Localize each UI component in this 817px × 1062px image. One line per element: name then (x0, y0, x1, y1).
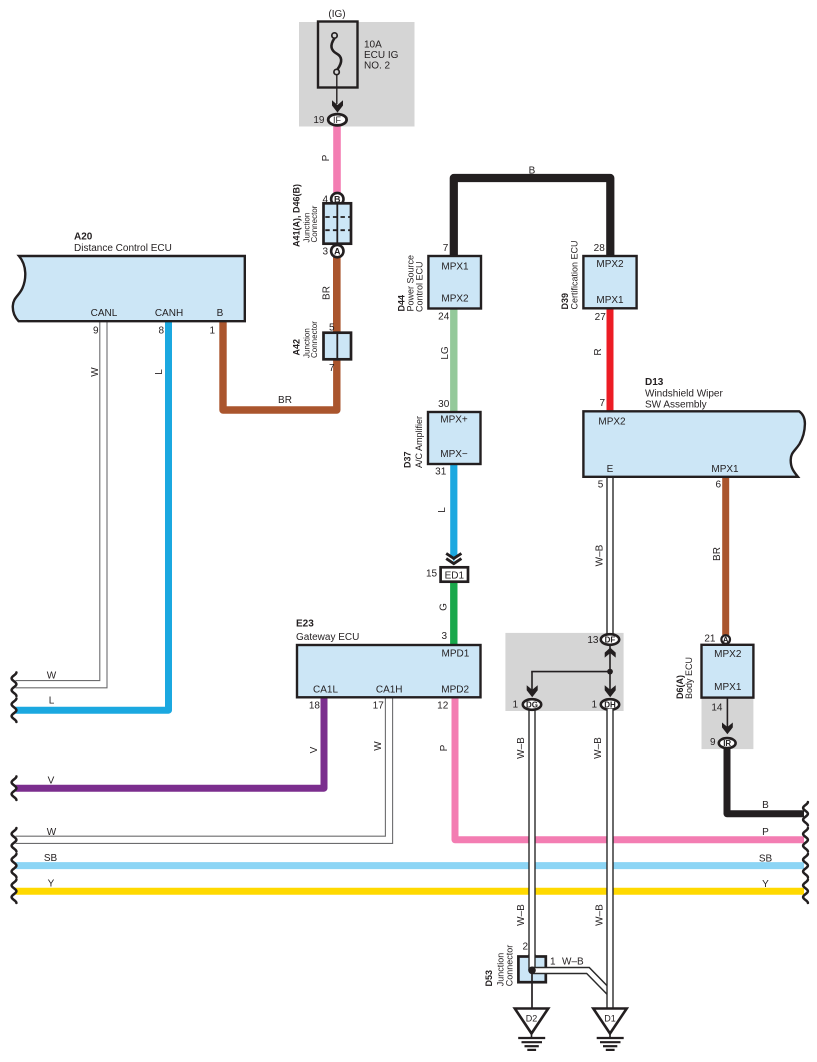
svg-text:19: 19 (313, 115, 325, 126)
svg-text:Connector: Connector (505, 945, 515, 987)
svg-text:E: E (607, 464, 614, 475)
svg-text:MPX1: MPX1 (714, 682, 742, 693)
svg-text:W: W (90, 367, 101, 377)
svg-text:DF: DF (605, 636, 616, 645)
svg-text:L: L (49, 696, 55, 707)
svg-text:3: 3 (441, 631, 447, 642)
label D37 A/C Amplifier (403, 416, 425, 468)
label D39 Certification ECU (560, 240, 580, 309)
svg-text:8: 8 (158, 326, 164, 337)
svg-text:MPX−: MPX− (440, 449, 468, 460)
svg-text:L: L (437, 507, 448, 513)
svg-text:31: 31 (435, 466, 447, 477)
wire SB bus (16, 862, 805, 869)
svg-text:A: A (723, 635, 729, 644)
continuation symbol Y left (12, 879, 17, 903)
svg-text:CA1L: CA1L (313, 684, 338, 695)
svg-text:B: B (529, 165, 536, 176)
svg-text:1: 1 (550, 957, 556, 968)
svg-text:A20: A20 (74, 232, 93, 243)
svg-text:P: P (762, 827, 769, 838)
svg-text:SB: SB (44, 853, 58, 864)
wire L from D37 to ED1 arrow (450, 463, 457, 562)
svg-text:DG: DG (526, 701, 538, 710)
connector ED1 (441, 567, 468, 581)
svg-text:MPX2: MPX2 (596, 259, 624, 270)
arrow into IF (332, 100, 343, 112)
svg-text:W–B: W–B (562, 957, 584, 968)
svg-text:W–B: W–B (595, 904, 606, 926)
svg-text:Connector: Connector (310, 321, 319, 358)
arrow into DH (605, 685, 616, 697)
svg-text:BR: BR (322, 286, 333, 300)
fuse value label (364, 40, 399, 72)
wire W-B from DG to D53 (528, 709, 535, 957)
ground D2 (515, 1009, 548, 1050)
wire LG from D44 to D37 (450, 308, 457, 413)
svg-text:IR: IR (723, 739, 731, 748)
svg-text:Windshield Wiper: Windshield Wiper (645, 389, 723, 400)
continuation symbol L left (12, 698, 17, 722)
svg-text:CANL: CANL (91, 308, 118, 319)
svg-text:A/C Amplifier: A/C Amplifier (414, 416, 424, 468)
wire W from E23 CA1H to left edge (16, 697, 390, 840)
svg-text:1: 1 (591, 700, 597, 711)
svg-text:D37: D37 (403, 451, 413, 468)
junction dot (607, 669, 613, 675)
wire P from E23 MPD2 to right edge (455, 697, 804, 840)
svg-text:Y: Y (762, 879, 769, 890)
svg-text:14: 14 (711, 703, 723, 714)
svg-text:MPX1: MPX1 (441, 262, 469, 273)
svg-text:28: 28 (594, 243, 606, 254)
continuation symbol Y right (803, 879, 808, 903)
svg-text:W–B: W–B (516, 904, 527, 926)
connector DG (523, 699, 541, 710)
svg-text:24: 24 (438, 311, 450, 322)
svg-text:DH: DH (604, 701, 616, 710)
junction wiring DF to DG/DH (531, 646, 610, 690)
svg-text:D13: D13 (645, 377, 664, 388)
ECU D13 Windshield Wiper SW Assembly (583, 411, 805, 477)
svg-text:6: 6 (715, 480, 721, 491)
wire G from ED1 to E23 (450, 582, 457, 646)
chevron arrows into ED1 (446, 553, 461, 563)
svg-text:D53: D53 (484, 970, 494, 987)
wire B from D44 to D39 (454, 178, 611, 257)
svg-text:10A: 10A (364, 40, 382, 51)
svg-text:W: W (47, 827, 57, 838)
svg-text:BR: BR (712, 547, 723, 561)
svg-text:MPX2: MPX2 (598, 417, 626, 428)
wire B from IR to right edge (727, 748, 804, 814)
ECU D37 A/C Amplifier (428, 412, 481, 464)
connector DH (601, 699, 619, 710)
svg-text:P: P (439, 744, 450, 751)
svg-text:R: R (593, 348, 604, 355)
svg-text:B: B (762, 800, 769, 811)
wire from D6(A) pin 14 to IR (726, 698, 728, 727)
ECU E23 Gateway ECU (297, 645, 481, 697)
svg-text:W: W (373, 741, 384, 751)
wire V from E23 CA1L to left edge (16, 697, 325, 788)
wire W-B inside D53 from pin 2 to junction (528, 954, 535, 970)
connector B (A41/D46) (331, 193, 343, 205)
svg-text:MPX1: MPX1 (596, 295, 624, 306)
svg-text:D39: D39 (560, 293, 570, 310)
svg-text:SB: SB (759, 854, 773, 865)
svg-text:D1: D1 (604, 1014, 616, 1024)
wire BR from A42 to A20 pin 1 (223, 321, 337, 410)
connector DF (601, 634, 619, 645)
svg-text:L: L (154, 369, 165, 375)
wire BR from junction A to A42 (333, 255, 341, 334)
continuation symbol SB right (803, 854, 808, 878)
wire W-B from DH to ground D1 (606, 709, 613, 1009)
svg-text:A: A (334, 246, 341, 256)
continuation symbol SB left (12, 854, 17, 878)
svg-text:G: G (439, 603, 450, 611)
svg-text:Body ECU: Body ECU (684, 657, 694, 699)
connector A (A41/D46) (331, 245, 343, 257)
wire from D53 junction to ground D2 (531, 970, 533, 1009)
fuse block shaded area (299, 22, 415, 127)
ECU D6(A) Body ECU (702, 645, 754, 698)
shaded area below D6(A) (702, 698, 754, 750)
svg-text:30: 30 (438, 399, 450, 410)
svg-text:Y: Y (48, 879, 55, 890)
svg-text:MPD2: MPD2 (441, 684, 469, 695)
svg-text:W–B: W–B (593, 737, 604, 759)
svg-text:17: 17 (373, 700, 385, 711)
ECU D44 Power Source Control ECU (428, 256, 481, 309)
continuation symbol P right (803, 828, 808, 852)
svg-text:LG: LG (440, 346, 451, 360)
svg-text:13: 13 (587, 635, 599, 646)
connector IR (719, 738, 736, 748)
svg-text:E23: E23 (296, 619, 314, 630)
svg-text:Gateway ECU: Gateway ECU (296, 632, 359, 643)
svg-text:IF: IF (333, 115, 342, 125)
connector IF (328, 114, 346, 125)
svg-text:21: 21 (704, 634, 716, 645)
arrow into DF (605, 648, 616, 658)
svg-text:5: 5 (329, 323, 335, 334)
svg-text:9: 9 (93, 326, 99, 337)
svg-text:12: 12 (437, 700, 449, 711)
connector A (D6) (721, 635, 730, 644)
label A41(A), D46(B) Junction Connector (292, 184, 320, 247)
svg-text:CANH: CANH (155, 308, 183, 319)
svg-text:9: 9 (710, 737, 716, 748)
svg-text:MPX2: MPX2 (441, 294, 469, 305)
svg-text:ED1: ED1 (445, 570, 465, 581)
svg-text:P: P (321, 154, 332, 161)
svg-text:V: V (48, 776, 55, 787)
label E23 Gateway ECU (296, 619, 359, 644)
continuation symbol W2 left (12, 828, 17, 852)
svg-text:A42: A42 (292, 339, 302, 356)
continuation symbol B right (803, 802, 808, 826)
arrow into DG (527, 685, 538, 697)
continuation symbol W left (12, 672, 17, 696)
ECU D39 Certification ECU (583, 256, 636, 308)
svg-text:18: 18 (309, 700, 321, 711)
svg-text:1: 1 (512, 700, 518, 711)
wire L from A20 CANH to left edge (16, 321, 169, 710)
svg-text:Connector: Connector (310, 205, 319, 242)
label D44 Power Source Control ECU (397, 255, 425, 312)
label D6(A) Body ECU (675, 657, 694, 699)
svg-text:W–B: W–B (516, 737, 527, 759)
svg-text:15: 15 (426, 568, 438, 579)
svg-text:SW Assembly: SW Assembly (645, 400, 707, 411)
svg-text:MPD1: MPD1 (442, 648, 470, 659)
svg-text:7: 7 (599, 398, 605, 409)
label D53 Junction Connector (484, 945, 515, 987)
svg-text:W: W (47, 671, 57, 682)
wire P from fuse IF to junction B (333, 121, 341, 194)
svg-text:Certification ECU: Certification ECU (570, 240, 580, 309)
svg-text:27: 27 (595, 312, 607, 323)
svg-text:MPX1: MPX1 (711, 464, 739, 475)
svg-text:MPX2: MPX2 (714, 649, 742, 660)
continuation symbol V left (12, 776, 17, 800)
svg-text:V: V (309, 746, 320, 753)
wire BR from D13 MPX1 to D6(A) (722, 476, 729, 635)
junction connector A41(A), D46(B) (324, 203, 352, 243)
svg-text:BR: BR (278, 395, 292, 406)
svg-text:3: 3 (322, 247, 328, 258)
svg-text:Control ECU: Control ECU (415, 261, 425, 312)
svg-text:Distance Control ECU: Distance Control ECU (74, 243, 172, 254)
wire W-B from D53 pin 1 to D1 wire (532, 971, 610, 994)
svg-text:B: B (217, 308, 224, 319)
svg-text:A41(A), D46(B): A41(A), D46(B) (292, 184, 302, 247)
label A20 Distance Control ECU (74, 232, 172, 255)
svg-text:5: 5 (598, 480, 604, 491)
svg-text:7: 7 (329, 363, 335, 374)
ground D1 (593, 1009, 626, 1050)
ECU A20 Distance Control ECU (13, 256, 245, 321)
wire Y bus (16, 888, 805, 895)
svg-text:NO. 2: NO. 2 (364, 60, 391, 71)
label A42 Junction Connector (292, 321, 320, 358)
label D13 Windshield Wiper SW Assembly (645, 377, 723, 411)
junction dot D53 (528, 967, 536, 975)
svg-text:W–B: W–B (595, 544, 606, 566)
svg-text:MPX+: MPX+ (440, 415, 468, 426)
wire R from D39 to D13 (607, 308, 614, 412)
junction shaded area DF/DG/DH (505, 633, 623, 711)
wire W-B from D13 E to DF (606, 476, 613, 635)
svg-text:D2: D2 (526, 1014, 538, 1024)
svg-text:1: 1 (209, 326, 215, 337)
fuse 10A ECU IG NO. 2 (318, 22, 358, 105)
svg-text:7: 7 (443, 243, 449, 254)
junction connector D53 (518, 957, 545, 983)
junction connector A42 (324, 333, 352, 360)
wire W from A20 CANL to left edge (16, 321, 104, 684)
svg-text:CA1H: CA1H (376, 684, 403, 695)
arrow into IR (722, 723, 733, 735)
svg-text:2: 2 (522, 942, 528, 953)
svg-text:(IG): (IG) (328, 9, 345, 20)
